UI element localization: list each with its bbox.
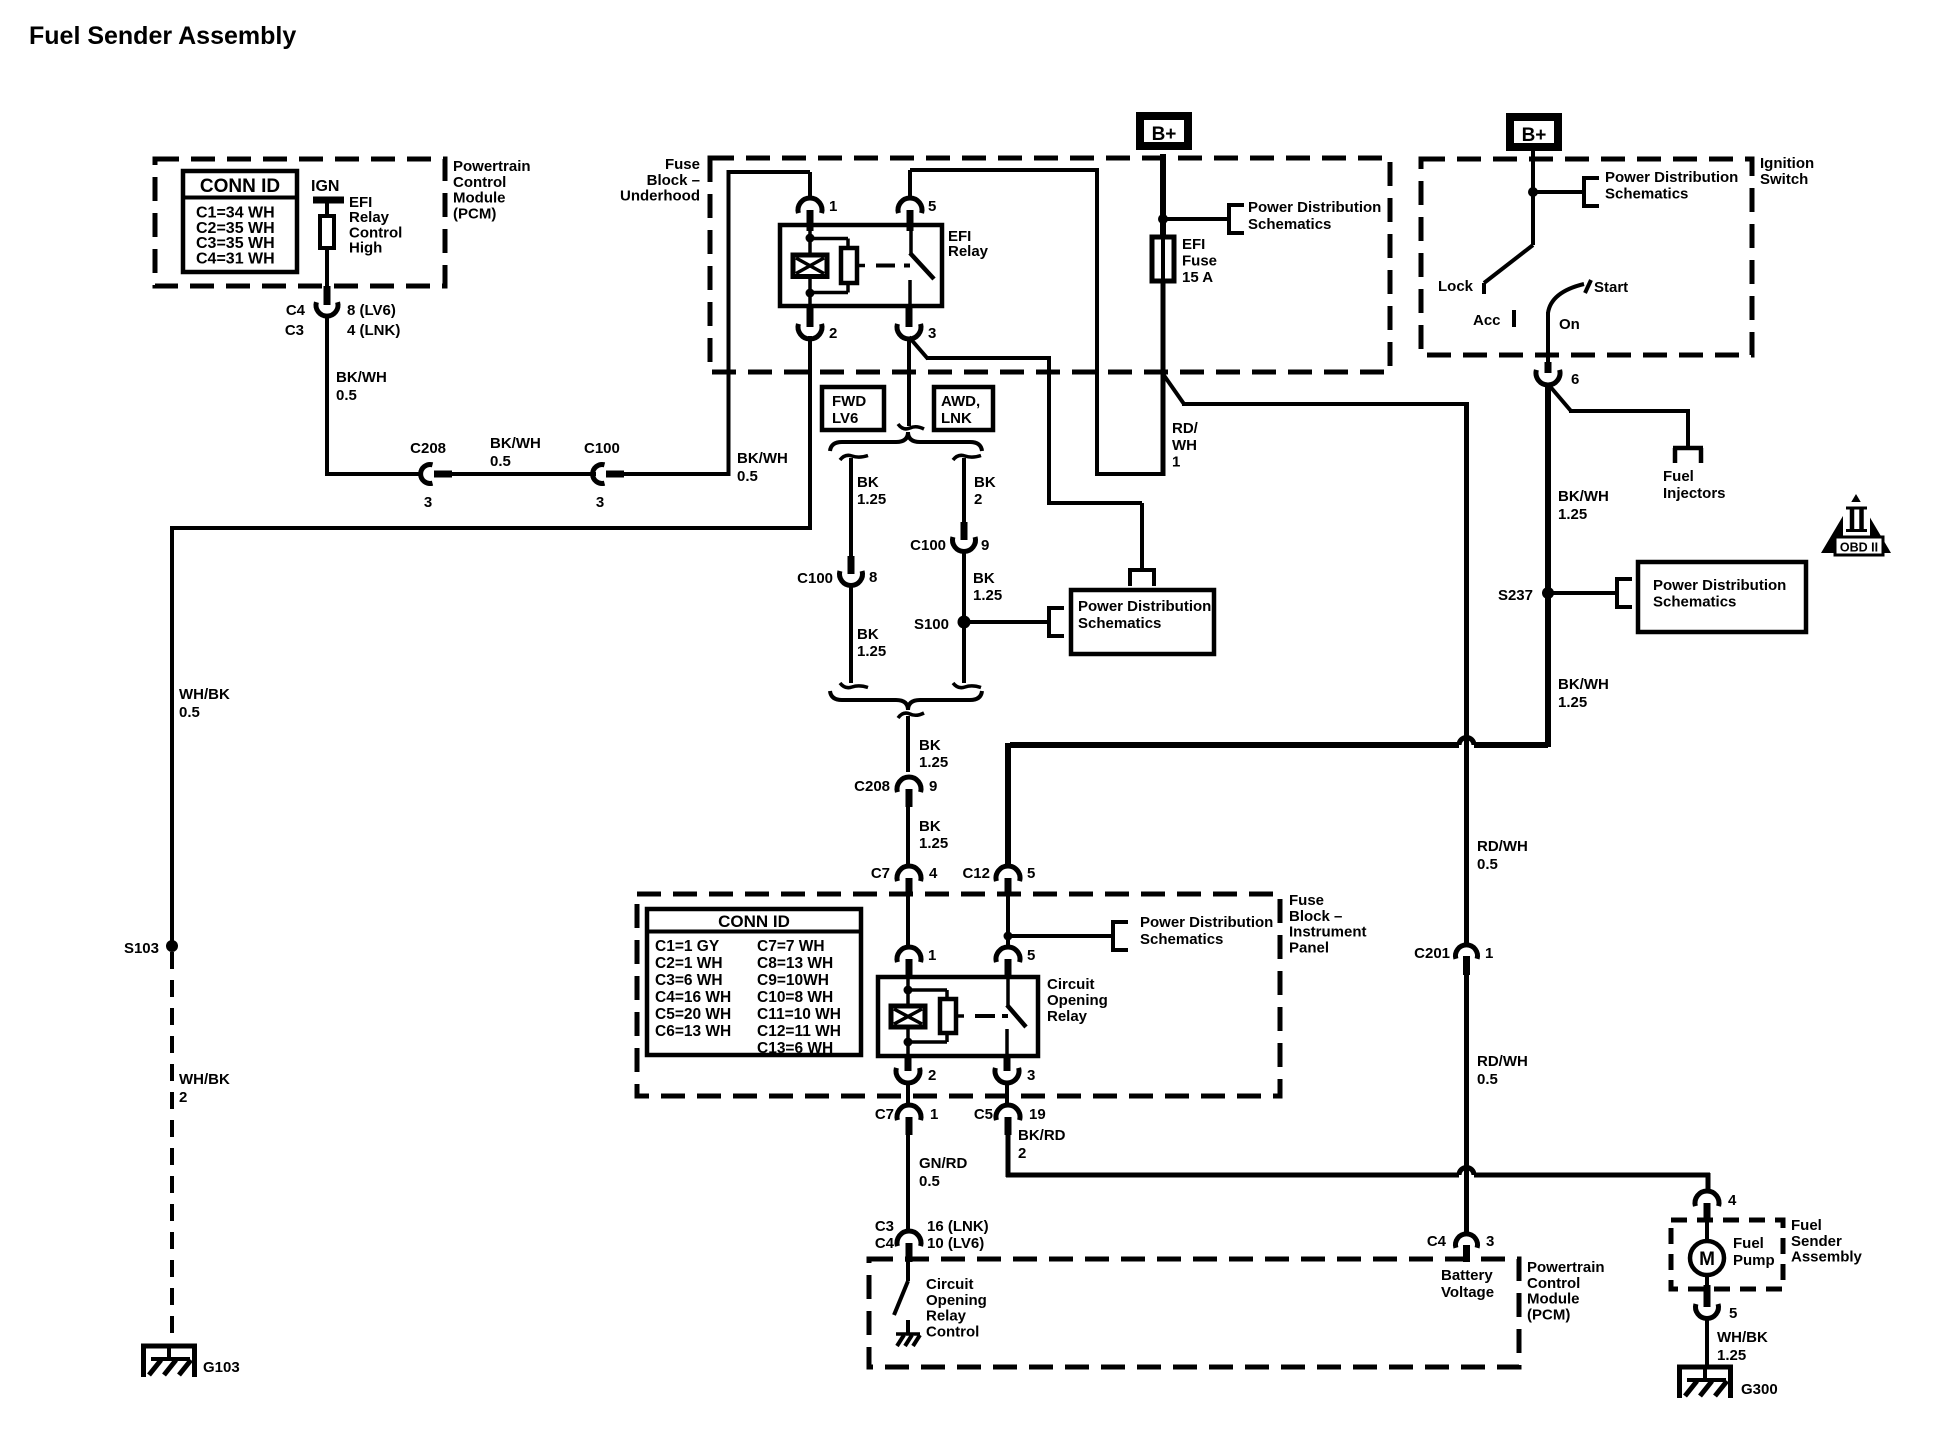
svg-text:10 (LV6): 10 (LV6): [927, 1235, 984, 1252]
wire S237 to PDS ref: [1548, 591, 1617, 595]
svg-text:0.5: 0.5: [1477, 1071, 1498, 1088]
svg-text:Schematics: Schematics: [1605, 186, 1688, 203]
svg-text:C12: C12: [962, 865, 990, 882]
svg-text:0.5: 0.5: [336, 387, 357, 404]
svg-text:BK/WH: BK/WH: [1558, 676, 1609, 693]
connector C7 pin 1: [897, 1105, 921, 1120]
svg-text:CONN ID: CONN ID: [200, 176, 280, 197]
svg-text:B+: B+: [1522, 125, 1547, 146]
svg-text:(PCM): (PCM): [1527, 1306, 1570, 1323]
wire C208 to C100: [452, 472, 596, 476]
wire to PDS ref (B+): [1163, 217, 1229, 221]
connector C208 pin 9: [897, 777, 921, 792]
EFI relay dashed link: [876, 264, 895, 268]
svg-text:3: 3: [1486, 1233, 1494, 1250]
connector C4/C3 pin 8/4: [324, 286, 331, 305]
svg-text:C12=11 WH: C12=11 WH: [757, 1023, 841, 1040]
resistor EFI Relay Control High (in PCM): [320, 216, 334, 248]
circuit opening relay box: [878, 977, 1038, 1056]
junction above relay pin5: [1004, 932, 1013, 941]
EFI relay coil: [806, 234, 815, 243]
svg-text:3: 3: [424, 494, 432, 511]
svg-text:1.25: 1.25: [857, 643, 886, 660]
CO relay pin 5: [996, 947, 1020, 962]
svg-text:1.25: 1.25: [1717, 1347, 1746, 1364]
svg-text:G103: G103: [203, 1359, 240, 1376]
wire On down to connector 6: [1546, 312, 1550, 364]
svg-text:Lock: Lock: [1438, 278, 1474, 295]
svg-text:GN/RD: GN/RD: [919, 1155, 968, 1172]
svg-text:Schematics: Schematics: [1078, 615, 1161, 632]
svg-text:Schematics: Schematics: [1140, 931, 1223, 948]
svg-text:C100: C100: [797, 570, 833, 587]
PCM module box (top left, dashed): [155, 159, 445, 286]
ignition switch box (dashed): [1421, 159, 1752, 355]
svg-text:CONN ID: CONN ID: [718, 912, 790, 931]
ground G300: [1677, 1365, 1733, 1370]
connector C4 pin 3 (PCM): [1456, 1234, 1478, 1248]
svg-text:Panel: Panel: [1289, 939, 1329, 956]
OBD II marker: [1821, 494, 1891, 553]
EFI relay pin 1: [798, 198, 822, 213]
svg-text:C208: C208: [854, 778, 890, 795]
EFI relay box: [780, 225, 942, 306]
wire C5-19 to fuel pump: [1006, 1135, 1011, 1177]
junction on B+ wire: [1158, 214, 1168, 224]
svg-text:Power Distribution: Power Distribution: [1248, 199, 1381, 216]
svg-text:Fuel Sender Assembly: Fuel Sender Assembly: [29, 22, 296, 50]
svg-text:Relay: Relay: [948, 243, 989, 260]
connector pin 5 (fuel sender): [1704, 1285, 1711, 1307]
svg-text:1.25: 1.25: [1558, 694, 1587, 711]
fuel sender assembly box (dashed): [1671, 1220, 1783, 1289]
wire resistor to PCM connector: [325, 248, 329, 288]
svg-text:Power Distribution: Power Distribution: [1653, 577, 1786, 594]
wire RD/WH 0.5 vertical: [1464, 402, 1469, 945]
brace split bottom: [830, 691, 982, 710]
svg-text:WH/BK: WH/BK: [179, 1071, 230, 1088]
svg-text:IGN: IGN: [311, 178, 339, 195]
svg-text:8: 8: [869, 569, 877, 586]
svg-text:Powertrain: Powertrain: [1527, 1259, 1605, 1276]
svg-text:RD/WH: RD/WH: [1477, 838, 1528, 855]
svg-text:5: 5: [1729, 1305, 1737, 1322]
svg-text:Circuit: Circuit: [1047, 976, 1095, 993]
ignition rotor arc: [1548, 284, 1584, 313]
svg-text:19: 19: [1029, 1106, 1046, 1123]
svg-text:Fuel: Fuel: [1663, 468, 1694, 485]
svg-text:Underhood: Underhood: [620, 188, 700, 205]
svg-text:Opening: Opening: [1047, 992, 1108, 1009]
svg-text:B+: B+: [1152, 124, 1177, 145]
svg-text:C5: C5: [974, 1106, 993, 1123]
option tag AWD LNK: [934, 387, 993, 430]
power tap B+ (underhood): [1140, 116, 1188, 146]
svg-text:C6=13 WH: C6=13 WH: [655, 1023, 731, 1040]
svg-text:(PCM): (PCM): [453, 205, 496, 222]
option tag FWD LV6: [822, 387, 884, 430]
wire C208-9 down: [906, 807, 910, 867]
svg-text:C201: C201: [1414, 945, 1450, 962]
ground (PCM internal): [896, 1332, 920, 1336]
CO relay coil: [904, 986, 913, 995]
wire to PDS ref (ignition): [1533, 190, 1584, 194]
svg-text:Circuit: Circuit: [926, 1276, 974, 1293]
wire RD/WH 1 branch: [1163, 374, 1184, 404]
ignition switch blade: [1484, 245, 1533, 283]
page ref PDS (B+): [1227, 203, 1231, 235]
connector C12 pin 5: [996, 866, 1020, 881]
svg-text:C4: C4: [286, 302, 306, 319]
svg-text:Acc: Acc: [1473, 312, 1501, 329]
wire BK/WH feed to C12: [1474, 742, 1548, 748]
svg-text:S100: S100: [914, 616, 949, 633]
svg-text:C8=13 WH: C8=13 WH: [757, 955, 833, 972]
svg-text:C5=20 WH: C5=20 WH: [655, 1006, 731, 1023]
svg-text:Fuse: Fuse: [1182, 253, 1217, 270]
wire C100-8 down: [849, 585, 853, 683]
svg-text:BK: BK: [919, 818, 941, 835]
svg-text:Module: Module: [453, 190, 506, 207]
wire B+ down: [1160, 154, 1166, 237]
svg-text:BK: BK: [857, 474, 879, 491]
svg-text:BK: BK: [919, 737, 941, 754]
svg-text:Battery: Battery: [1441, 1267, 1493, 1284]
svg-text:Control: Control: [1527, 1275, 1580, 1292]
connector C5 pin 19: [996, 1105, 1020, 1120]
svg-text:Opening: Opening: [926, 1292, 987, 1309]
wire junction to PDS ref: [1008, 934, 1113, 938]
svg-text:15 A: 15 A: [1182, 269, 1213, 286]
svg-text:C13=6 WH: C13=6 WH: [757, 1040, 833, 1057]
wire resume below brace: [898, 713, 924, 718]
svg-text:2: 2: [179, 1089, 187, 1106]
junction (ignition feed): [1528, 187, 1538, 197]
svg-text:5: 5: [928, 198, 936, 215]
wire EFI relay pin2 to S103: [808, 336, 812, 530]
svg-text:4: 4: [929, 865, 938, 882]
svg-text:16 (LNK): 16 (LNK): [927, 1218, 989, 1235]
connector C100 pin 9: [961, 522, 968, 540]
wire C100-9 down to S100: [962, 551, 966, 683]
svg-text:1.25: 1.25: [973, 587, 1002, 604]
svg-text:Schematics: Schematics: [1248, 216, 1331, 233]
svg-text:BK: BK: [973, 570, 995, 587]
svg-text:3: 3: [1027, 1067, 1035, 1084]
svg-text:OBD II: OBD II: [1840, 541, 1878, 555]
fuse block instrument panel box (dashed): [637, 894, 1280, 1096]
svg-text:LV6: LV6: [832, 410, 858, 427]
svg-text:4 (LNK): 4 (LNK): [347, 322, 400, 339]
splice S103: [166, 940, 178, 952]
svg-text:C3: C3: [875, 1218, 894, 1235]
svg-text:C100: C100: [584, 440, 620, 457]
svg-text:3: 3: [596, 494, 604, 511]
svg-text:1: 1: [928, 947, 936, 964]
svg-text:C4=16 WH: C4=16 WH: [655, 989, 731, 1006]
connector pin 4 (fuel sender): [1695, 1191, 1719, 1206]
svg-text:BK/RD: BK/RD: [1018, 1127, 1066, 1144]
EFI relay pin 5: [898, 198, 922, 213]
CO relay pin 3: [1004, 1056, 1011, 1071]
wire option FWD (BK 1.25): [840, 455, 868, 460]
page ref to PDS (top of box): [1128, 568, 1156, 572]
svg-text:2: 2: [974, 491, 982, 508]
EFI relay armature: [810, 237, 848, 241]
svg-text:BK/WH: BK/WH: [1558, 488, 1609, 505]
wire C12-5 down: [1006, 896, 1010, 948]
svg-text:C7=7 WH: C7=7 WH: [757, 938, 825, 955]
svg-text:9: 9: [981, 537, 989, 554]
wire PCM down and right: [325, 314, 329, 476]
svg-text:2: 2: [1018, 1145, 1026, 1162]
svg-text:EFI: EFI: [1182, 236, 1205, 253]
CO relay dashed link: [975, 1014, 995, 1018]
svg-text:C100: C100: [910, 537, 946, 554]
wire CO pin3 down: [1005, 1082, 1009, 1106]
splice S237: [1542, 587, 1554, 599]
svg-text:Fuse: Fuse: [665, 156, 700, 173]
svg-text:Start: Start: [1594, 279, 1628, 296]
svg-text:Power Distribution: Power Distribution: [1078, 598, 1211, 615]
svg-text:BK: BK: [857, 626, 879, 643]
svg-text:Block –: Block –: [1289, 908, 1342, 925]
wire B+ into switch: [1531, 151, 1535, 245]
svg-text:4: 4: [1728, 1192, 1737, 1209]
hook ends of option wires: [840, 683, 868, 688]
svg-text:Pump: Pump: [1733, 1252, 1775, 1269]
svg-text:FWD: FWD: [832, 393, 866, 410]
wire C7-1 down to PCM: [906, 1135, 910, 1232]
svg-text:1: 1: [829, 198, 837, 215]
CO relay armature: [908, 988, 947, 992]
svg-text:1.25: 1.25: [857, 491, 886, 508]
svg-text:S237: S237: [1498, 587, 1533, 604]
connector C3/C4 pin 16/10: [897, 1231, 921, 1246]
svg-text:Voltage: Voltage: [1441, 1284, 1494, 1301]
page ref fuel injectors: [1673, 446, 1703, 451]
svg-text:C10=8 WH: C10=8 WH: [757, 989, 833, 1006]
svg-text:Relay: Relay: [1047, 1008, 1088, 1025]
svg-text:C7: C7: [875, 1106, 894, 1123]
wire BK/WH 1.25 down to S237: [1545, 384, 1551, 747]
wire CO pin2 down: [906, 1082, 910, 1106]
svg-text:Fuse: Fuse: [1289, 892, 1324, 909]
PCM box (bottom, dashed): [869, 1259, 1519, 1367]
svg-text:0.5: 0.5: [1477, 856, 1498, 873]
CONN ID table (IP): [647, 909, 861, 1055]
wire fuse down and to relay pin5: [1161, 281, 1166, 476]
svg-text:Powertrain: Powertrain: [453, 158, 531, 175]
svg-text:Module: Module: [1527, 1291, 1580, 1308]
svg-text:Sender: Sender: [1791, 1233, 1842, 1250]
wire EFI relay pin3 to PDS ref: [909, 337, 928, 359]
EFI relay pin 3: [906, 306, 913, 327]
svg-text:1.25: 1.25: [1558, 506, 1587, 523]
svg-text:Assembly: Assembly: [1791, 1249, 1863, 1266]
brace split top: [830, 432, 982, 451]
page ref PDS (S237): [1615, 577, 1619, 609]
fuel pump motor: [1705, 1222, 1709, 1242]
svg-text:Fuel: Fuel: [1791, 1217, 1822, 1234]
Power Distribution Schematics box (right): [1638, 562, 1806, 632]
svg-text:1: 1: [1485, 945, 1493, 962]
svg-text:9: 9: [929, 778, 937, 795]
page ref PDS (S100): [1047, 606, 1051, 638]
svg-text:0.5: 0.5: [179, 704, 200, 721]
CO relay pin 2: [905, 1056, 912, 1071]
CONN ID table (PCM): [183, 171, 297, 272]
svg-text:WH: WH: [1172, 437, 1197, 454]
svg-text:BK/WH: BK/WH: [737, 450, 788, 467]
connector C208 pin 3 (inline): [421, 465, 433, 484]
svg-text:0.5: 0.5: [490, 453, 511, 470]
svg-text:Control: Control: [926, 1323, 979, 1340]
fuse EFI 15A: [1152, 237, 1174, 281]
svg-text:Switch: Switch: [1760, 171, 1808, 188]
svg-text:8 (LV6): 8 (LV6): [347, 302, 396, 319]
svg-text:0.5: 0.5: [919, 1173, 940, 1190]
svg-text:M: M: [1699, 1249, 1715, 1270]
svg-text:1: 1: [1172, 454, 1180, 471]
svg-text:5: 5: [1027, 865, 1035, 882]
svg-text:Fuel: Fuel: [1733, 1235, 1764, 1252]
svg-text:BK: BK: [974, 474, 996, 491]
svg-text:AWD,: AWD,: [941, 393, 980, 410]
connector C201 pin 1: [1456, 945, 1478, 959]
svg-text:1: 1: [930, 1106, 938, 1123]
page ref PDS (instrument panel): [1111, 920, 1115, 952]
svg-text:C1=1 GY: C1=1 GY: [655, 938, 720, 955]
connector C7 pin 4: [897, 866, 921, 881]
svg-text:C4: C4: [875, 1235, 895, 1252]
CO relay switch: [1006, 979, 1010, 1007]
IGN supply symbol: [313, 197, 344, 204]
page ref PDS (ignition): [1582, 176, 1586, 208]
svg-text:C9=10WH: C9=10WH: [757, 972, 829, 989]
svg-text:C2=1 WH: C2=1 WH: [655, 955, 723, 972]
svg-text:1.25: 1.25: [919, 835, 948, 852]
svg-text:RD/: RD/: [1172, 420, 1199, 437]
CO relay pin 1: [897, 947, 921, 962]
circuit opening relay control switch (PCM): [906, 1262, 910, 1281]
svg-text:RD/WH: RD/WH: [1477, 1053, 1528, 1070]
svg-text:C4: C4: [1427, 1233, 1447, 1250]
connector C100 pin 3 (inline): [593, 465, 605, 484]
wire S100 to PDS ref: [964, 620, 1049, 624]
svg-text:0.5: 0.5: [737, 468, 758, 485]
wire C100 up to EFI relay pin 1: [624, 472, 729, 476]
wire S103 to G103 (dashed): [170, 952, 174, 1344]
svg-text:C3=6 WH: C3=6 WH: [655, 972, 723, 989]
svg-text:5: 5: [1027, 947, 1035, 964]
ground G103: [141, 1344, 197, 1349]
power tap B+ (ignition): [1510, 117, 1558, 147]
EFI relay switch: [909, 225, 913, 255]
wire EFI relay pin3 down: [907, 338, 911, 426]
svg-text:Power Distribution: Power Distribution: [1140, 914, 1273, 931]
svg-text:Instrument: Instrument: [1289, 924, 1367, 941]
svg-text:3: 3: [928, 325, 936, 342]
svg-text:1.25: 1.25: [919, 754, 948, 771]
svg-text:On: On: [1559, 316, 1580, 333]
EFI relay pin 2: [807, 306, 814, 327]
svg-text:C4=31 WH: C4=31 WH: [196, 250, 275, 267]
svg-text:High: High: [349, 240, 382, 257]
svg-text:Schematics: Schematics: [1653, 594, 1736, 611]
wire option AWD (BK 2): [953, 455, 981, 460]
svg-text:Relay: Relay: [926, 1308, 967, 1325]
svg-text:G300: G300: [1741, 1381, 1778, 1398]
svg-text:WH/BK: WH/BK: [1717, 1329, 1768, 1346]
svg-text:BK/WH: BK/WH: [490, 435, 541, 452]
svg-text:Control: Control: [453, 174, 506, 191]
svg-text:Power Distribution: Power Distribution: [1605, 169, 1738, 186]
fuse block underhood box (dashed): [710, 158, 1390, 372]
svg-text:2: 2: [928, 1067, 936, 1084]
svg-text:Block –: Block –: [647, 172, 700, 189]
connector C100 pin 8: [848, 556, 855, 574]
svg-text:S103: S103: [124, 940, 159, 957]
svg-text:Injectors: Injectors: [1663, 485, 1726, 502]
svg-text:C11=10 WH: C11=10 WH: [757, 1006, 841, 1023]
Power Distribution Schematics box (mid): [1071, 590, 1214, 654]
splice S100: [958, 616, 971, 629]
wire C7-4 down to relay pin1: [906, 896, 910, 948]
svg-text:C3: C3: [285, 322, 304, 339]
wire to G300: [1705, 1318, 1709, 1367]
svg-text:6: 6: [1571, 371, 1579, 388]
svg-text:C208: C208: [410, 440, 446, 457]
svg-text:LNK: LNK: [941, 410, 972, 427]
svg-text:2: 2: [829, 325, 837, 342]
svg-text:WH/BK: WH/BK: [179, 686, 230, 703]
wire to fuel injectors: [1548, 384, 1571, 411]
svg-text:BK/WH: BK/WH: [336, 369, 387, 386]
connector pin 6: [1545, 362, 1552, 373]
svg-text:C7: C7: [871, 865, 890, 882]
svg-text:Ignition: Ignition: [1760, 155, 1814, 172]
